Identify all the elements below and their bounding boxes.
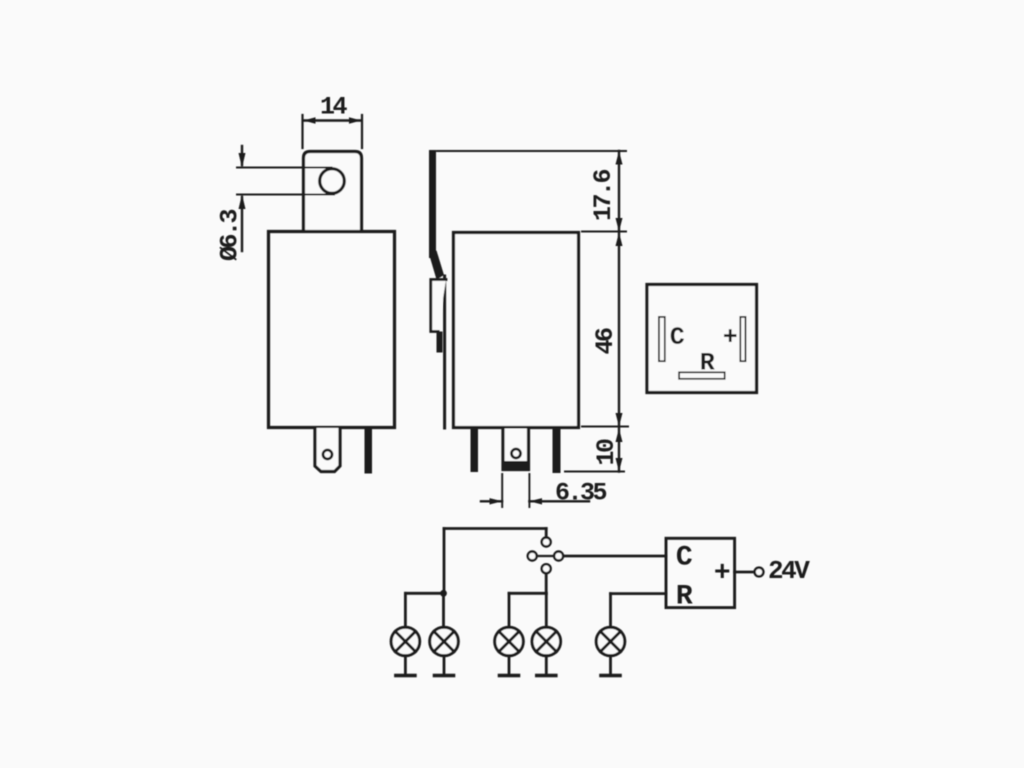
svg-text:Ø6.3: Ø6.3 [216, 210, 245, 262]
wire lamp1 stem [404, 593, 407, 627]
dim Ø6.3 arrow down [241, 146, 243, 165]
arrow down at 426.5 [616, 413, 623, 427]
slot + [740, 317, 745, 361]
switch contact top [542, 538, 551, 547]
arrow up at 231.5 [616, 233, 623, 247]
dim 14 extension line left [301, 115, 303, 148]
front pin with hole [315, 428, 340, 472]
arrow up at 427.5 [616, 429, 623, 443]
dim line right segment [529, 500, 589, 502]
front pin hole [323, 450, 332, 459]
dim 14 extension line right [361, 115, 363, 148]
bracket arm [429, 150, 436, 258]
svg-text:6.35: 6.35 [555, 479, 607, 508]
wire switch to C [564, 555, 667, 558]
front thin pin [365, 428, 373, 474]
dim 14 arrow right [349, 117, 361, 123]
wire lamp4 stem [545, 593, 548, 627]
switch contact left [528, 552, 537, 561]
lamp L4 [532, 627, 561, 656]
ground L2 [443, 656, 446, 674]
wire top-left vertical [443, 529, 446, 594]
svg-text:46: 46 [591, 328, 620, 355]
wire R from box [611, 592, 667, 595]
ext line bracket top [437, 150, 626, 152]
svg-text:14: 14 [320, 93, 348, 122]
wire top horizontal [444, 527, 546, 530]
arrow down at 231.5 [616, 218, 623, 232]
ground L4 [545, 656, 548, 674]
side pin center [503, 429, 529, 470]
lamp L1 [391, 627, 420, 656]
wire down to switch [545, 529, 548, 538]
wire lamp2 stem [442, 593, 445, 627]
mounting tab front [304, 152, 362, 231]
ext line body top right [582, 231, 626, 233]
side pin center bottom bar [504, 461, 529, 471]
dim 14 line [304, 119, 362, 121]
dim line Ø6.3 top extension [237, 167, 332, 169]
terminal circle [755, 568, 764, 577]
dim line left segment [481, 500, 502, 502]
side pin right [553, 429, 561, 474]
side pin center hole [512, 449, 521, 458]
dim 14 arrow left [304, 117, 316, 123]
ground stems and bars [396, 656, 620, 676]
bracket slant [429, 251, 444, 280]
ground L3 [508, 656, 511, 674]
bracket step [437, 332, 443, 353]
dim line Ø6.3 bottom extension [237, 194, 334, 196]
svg-text:+: + [714, 558, 730, 589]
vertical dimension line [618, 151, 620, 472]
connector square [647, 285, 757, 393]
switch contact bottom [542, 564, 551, 573]
side pin left [471, 429, 479, 473]
wire switch bottom to node [545, 574, 548, 594]
svg-text:C: C [676, 543, 693, 574]
lamp L3 [495, 627, 524, 656]
dim Ø6.3 arrow up [241, 197, 243, 251]
lamp L5 [596, 627, 625, 656]
relay box [666, 538, 735, 607]
ext line left [501, 474, 503, 507]
switch bridge [537, 555, 554, 557]
wire lamp5 stem [609, 594, 612, 628]
wire lamps 3-4 horizontal [509, 592, 546, 595]
svg-text:24V: 24V [768, 556, 810, 586]
arrow up at 151 [616, 151, 623, 165]
ext line right [528, 474, 530, 507]
wire lamps 1-2 horizontal [405, 592, 443, 595]
svg-text:10: 10 [592, 439, 621, 466]
relay body front [269, 232, 395, 428]
ext line pins bottom right [565, 471, 624, 473]
relay body side [454, 233, 579, 428]
bracket strip line outer [443, 276, 446, 428]
arrow down at 471.5 [616, 458, 623, 472]
ground L5 [609, 656, 612, 674]
svg-text:17.6: 17.6 [589, 170, 618, 222]
svg-text:+: + [723, 323, 737, 352]
junction dot [440, 590, 447, 597]
ground L1 [404, 656, 407, 674]
ext line body bottom right [582, 426, 628, 428]
bracket clip [431, 280, 446, 332]
tab hole [320, 169, 345, 194]
slot C [659, 317, 665, 361]
slot R [679, 372, 725, 379]
wire + to terminal [735, 571, 754, 574]
wire lamp3 stem [508, 593, 511, 627]
switch contact right [554, 552, 563, 561]
lamp L2 [430, 627, 459, 656]
